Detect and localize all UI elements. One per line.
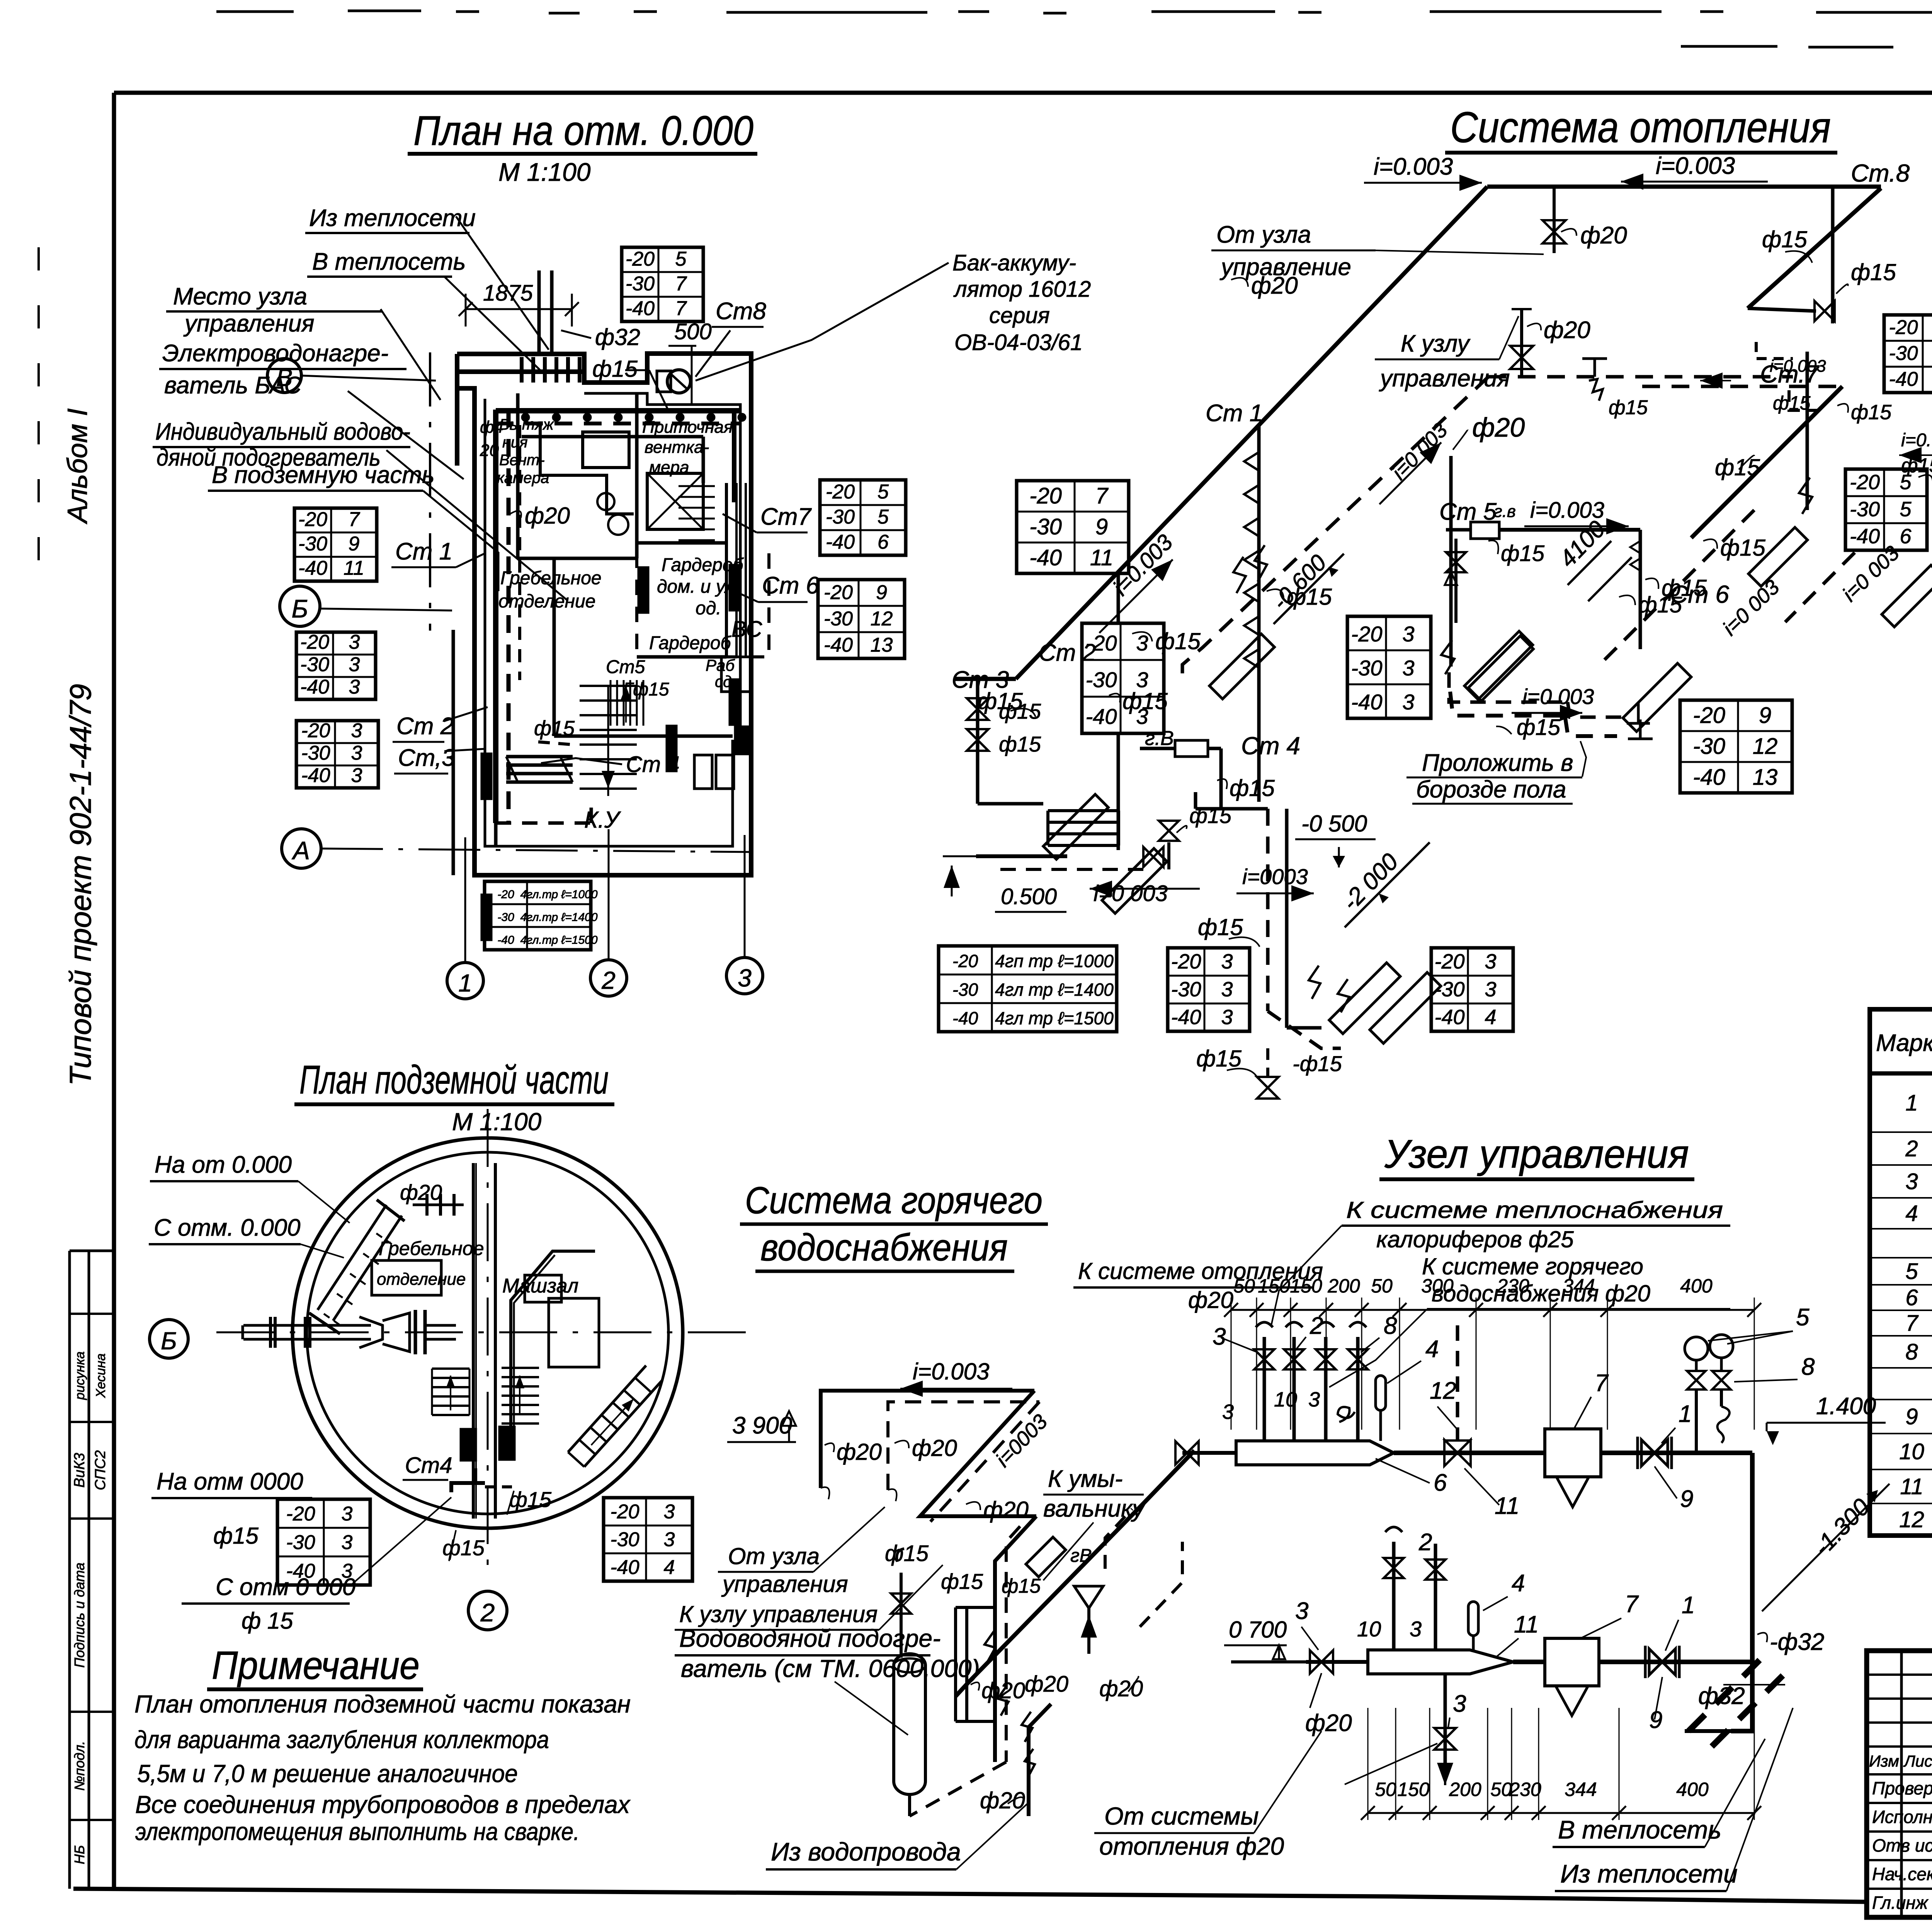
thermometer lower xyxy=(1468,1602,1478,1636)
svg-text:-20: -20 xyxy=(824,581,853,604)
svg-text:6: 6 xyxy=(1905,1285,1918,1310)
upper manifold 6 xyxy=(1236,1441,1394,1465)
svg-text:Подпись и дата: Подпись и дата xyxy=(71,1563,87,1668)
svg-text:К системе горячего: К системе горячего xyxy=(1422,1253,1643,1279)
svg-text:гВ: гВ xyxy=(1070,1546,1092,1566)
upper risers xyxy=(1263,1337,1266,1441)
flange pipe stub upper xyxy=(413,1204,464,1206)
heating lower-left level pipes xyxy=(976,854,1067,858)
svg-text:Провер.: Провер. xyxy=(1872,1778,1932,1798)
svg-text:-20: -20 xyxy=(1351,622,1383,646)
svg-text:2: 2 xyxy=(1418,1529,1432,1556)
drop elbows to radiators xyxy=(1268,1011,1341,1048)
svg-text:5: 5 xyxy=(1900,498,1912,521)
table H4 5/5/6 xyxy=(1845,469,1927,550)
svg-text:Ст4: Ст4 xyxy=(405,1453,452,1478)
table P7 4гл.тр xyxy=(485,881,591,950)
svg-text:мера: мера xyxy=(649,458,689,477)
upper dirt trap 7 xyxy=(1545,1429,1601,1477)
svg-text:Отв исп.: Отв исп. xyxy=(1872,1835,1932,1855)
svg-text:4: 4 xyxy=(1425,1336,1439,1362)
table H8 3/3/3 xyxy=(1168,948,1250,1031)
svg-text:2: 2 xyxy=(1310,1313,1323,1339)
svg-text:К узлу управления: К узлу управления xyxy=(679,1601,878,1627)
svg-text:5: 5 xyxy=(878,506,889,528)
svg-text:5: 5 xyxy=(675,248,687,270)
svg-text:Из теплосети: Из теплосети xyxy=(309,205,476,231)
svg-text:Вь.тяж: Вь.тяж xyxy=(499,416,554,433)
underground black risers xyxy=(461,1429,476,1461)
svg-text:От узла: От узла xyxy=(728,1543,820,1569)
lower dirt trap 7 xyxy=(1545,1638,1599,1686)
svg-text:50: 50 xyxy=(1371,1275,1393,1297)
lower main pipe xyxy=(1513,1660,1752,1664)
svg-text:7: 7 xyxy=(1595,1370,1609,1396)
svg-text:50: 50 xyxy=(1375,1779,1396,1800)
hot risers group mid xyxy=(954,1607,957,1721)
svg-text:лятор 16012: лятор 16012 xyxy=(953,277,1091,302)
svg-text:6: 6 xyxy=(1434,1469,1447,1496)
svg-text:Нач.сект: Нач.сект xyxy=(1872,1864,1932,1884)
svg-text:ф 15: ф 15 xyxy=(241,1608,293,1634)
svg-text:-40: -40 xyxy=(1171,1005,1201,1029)
axis bubble В xyxy=(267,359,301,393)
table U1 3/3/3 xyxy=(277,1499,370,1585)
svg-text:4: 4 xyxy=(664,1556,675,1578)
underground centerline vertical xyxy=(487,1109,489,1580)
svg-text:Система отопления: Система отопления xyxy=(1450,103,1831,151)
svg-text:В подземную часть: В подземную часть xyxy=(212,462,435,488)
svg-text:2: 2 xyxy=(601,966,616,994)
svg-text:4: 4 xyxy=(1512,1570,1525,1597)
svg-text:230: 230 xyxy=(1497,1275,1529,1297)
bottom valve xyxy=(1266,1048,1269,1078)
svg-text:электропомещения выполнить на: электропомещения выполнить на сварке. xyxy=(135,1818,580,1845)
upper manifold inlet valve xyxy=(1182,1451,1236,1455)
svg-text:В теплосеть: В теплосеть xyxy=(1558,1815,1721,1844)
svg-text:С отм. 0.000: С отм. 0.000 xyxy=(154,1214,301,1241)
svg-text:-40: -40 xyxy=(1086,704,1117,728)
svg-text:Место узла: Место узла xyxy=(173,283,307,310)
svg-text:-20: -20 xyxy=(301,719,330,742)
svg-text:М 1:100: М 1:100 xyxy=(452,1108,542,1136)
svg-text:Раб: Раб xyxy=(706,656,735,674)
svg-text:i=0.003: i=0.003 xyxy=(1656,153,1735,179)
stairs annex xyxy=(679,485,715,487)
valve marks ст5 riser xyxy=(1630,541,1640,553)
svg-text:Лист: Лист xyxy=(1903,1752,1932,1770)
plan interior walls xyxy=(516,393,520,558)
svg-text:управления: управления xyxy=(183,310,315,337)
svg-text:-40: -40 xyxy=(1850,525,1880,548)
гВ box hot xyxy=(1026,1537,1066,1577)
svg-text:8: 8 xyxy=(1801,1354,1815,1380)
svg-text:4: 4 xyxy=(1905,1201,1918,1226)
svg-text:-40: -40 xyxy=(301,764,330,787)
svg-text:150: 150 xyxy=(1258,1275,1290,1297)
svg-text:-30: -30 xyxy=(610,1528,639,1551)
spec table frame xyxy=(1870,1009,1932,1536)
underground stairs right xyxy=(502,1367,539,1369)
svg-text:3: 3 xyxy=(351,764,362,787)
svg-text:0 700: 0 700 xyxy=(1229,1617,1287,1643)
svg-text:-30: -30 xyxy=(1434,978,1464,1001)
radiator Ст2 xyxy=(1102,849,1167,913)
гв box ст4 xyxy=(1175,740,1208,757)
svg-text:5: 5 xyxy=(1796,1304,1810,1331)
svg-text:-30: -30 xyxy=(497,911,514,924)
dashed return mid drop xyxy=(910,1762,1006,1816)
svg-text:-40: -40 xyxy=(626,297,655,320)
radiator bars Ст2-Ст3 xyxy=(506,755,573,759)
svg-text:3: 3 xyxy=(1905,1169,1918,1194)
svg-text:Ст 3: Ст 3 xyxy=(952,667,1009,693)
svg-text:7: 7 xyxy=(1905,1311,1919,1336)
svg-text:-ф32: -ф32 xyxy=(1770,1629,1824,1655)
table P4 7/9/11 xyxy=(294,508,377,581)
svg-text:водоснабжения ф20: водоснабжения ф20 xyxy=(1432,1281,1650,1306)
plan dashed loop гардероб xyxy=(637,553,769,657)
svg-text:С отм 0 000: С отм 0 000 xyxy=(216,1574,355,1600)
axis bubble 2 xyxy=(590,960,627,996)
svg-text:ф20: ф20 xyxy=(1025,1672,1068,1697)
svg-text:3: 3 xyxy=(1222,1400,1234,1423)
svg-text:-30: -30 xyxy=(1171,978,1201,1001)
svg-text:1: 1 xyxy=(1679,1401,1692,1427)
svg-text:-30: -30 xyxy=(300,653,329,676)
svg-text:-30: -30 xyxy=(824,607,853,630)
svg-text:3: 3 xyxy=(1402,622,1414,646)
svg-text:-40: -40 xyxy=(610,1556,639,1578)
svg-text:Гребельное: Гребельное xyxy=(379,1238,484,1259)
svg-text:0.500: 0.500 xyxy=(1001,884,1057,909)
svg-text:3: 3 xyxy=(1221,1005,1233,1029)
plan pipe branch вентка xyxy=(540,423,634,514)
svg-text:ф15: ф15 xyxy=(1196,1046,1242,1071)
curl symbol upper xyxy=(1338,1407,1355,1422)
svg-text:-40: -40 xyxy=(826,531,855,553)
lower dim line xyxy=(1368,1812,1754,1814)
svg-text:ф32: ф32 xyxy=(1698,1683,1745,1709)
title block left rows xyxy=(1867,1673,1932,1676)
svg-text:ф15: ф15 xyxy=(534,717,575,740)
svg-text:План отопления подземной части: План отопления подземной части показан xyxy=(134,1690,631,1718)
svg-text:Ст8: Ст8 xyxy=(716,298,766,325)
vertical ст7 drop xyxy=(1806,352,1809,510)
svg-text:3: 3 xyxy=(1410,1617,1422,1641)
svg-text:№подл.: №подл. xyxy=(71,1741,87,1791)
anchor floor duct xyxy=(1639,719,1642,739)
svg-text:20: 20 xyxy=(480,441,499,460)
svg-text:ф20: ф20 xyxy=(837,1439,882,1465)
svg-text:Машзал: Машзал xyxy=(502,1275,578,1297)
svg-text:ф15: ф15 xyxy=(1851,259,1896,285)
svg-text:Ст,3: Ст,3 xyxy=(398,745,455,771)
svg-text:калориферов ф25: калориферов ф25 xyxy=(1376,1226,1574,1252)
plan lower pipe marks xyxy=(494,823,498,845)
svg-text:-20: -20 xyxy=(298,509,327,531)
svg-text:План подземной части: План подземной части xyxy=(299,1058,609,1102)
svg-text:-0 500: -0 500 xyxy=(1301,811,1367,837)
svg-text:СПС2: СПС2 xyxy=(92,1450,109,1490)
svg-text:од.: од. xyxy=(696,598,721,619)
svg-text:Приточная: Приточная xyxy=(642,418,733,437)
lower risers xyxy=(1392,1542,1396,1650)
теплосеть dashed diagonals xyxy=(1689,1658,1762,1731)
svg-text:В теплосеть: В теплосеть xyxy=(312,248,466,275)
valve stub от узла on top main xyxy=(1553,187,1556,253)
pressure gauges 5 xyxy=(1685,1337,1708,1360)
svg-text:-30: -30 xyxy=(301,742,330,764)
svg-text:9: 9 xyxy=(1680,1486,1693,1512)
svg-text:-20: -20 xyxy=(286,1503,315,1525)
svg-text:i=0.003: i=0.003 xyxy=(1374,153,1453,180)
plan pipe bottom branch xyxy=(496,821,591,825)
svg-text:-20: -20 xyxy=(1171,950,1201,973)
svg-text:-20: -20 xyxy=(300,631,329,653)
svg-text:-40: -40 xyxy=(952,1008,978,1028)
table P2 5/5/6 xyxy=(820,480,906,555)
svg-text:НБ: НБ xyxy=(71,1845,87,1864)
valve squiggle on return xyxy=(1589,379,1603,401)
underground pipes Ст4 xyxy=(451,1483,485,1492)
svg-text:отделение: отделение xyxy=(377,1270,466,1289)
return drop to floor duct xyxy=(1449,456,1453,667)
radiator Ст3 xyxy=(1043,794,1108,859)
table P3 9/12/13 xyxy=(818,580,905,658)
vent chamber X symbol xyxy=(647,473,703,529)
svg-text:На отм 0000: На отм 0000 xyxy=(156,1468,303,1495)
svg-text:Ст 4: Ст 4 xyxy=(1241,732,1300,760)
svg-text:Вент-: Вент- xyxy=(499,452,545,469)
svg-text:2: 2 xyxy=(480,1598,495,1627)
radiator right xyxy=(1623,663,1691,732)
svg-text:-40: -40 xyxy=(1889,368,1918,391)
svg-text:3: 3 xyxy=(1295,1598,1308,1624)
funnel symbol hot xyxy=(1074,1586,1103,1608)
svg-text:7: 7 xyxy=(349,509,361,531)
svg-text:ф15: ф15 xyxy=(1638,592,1682,617)
vent unit rect xyxy=(583,432,629,468)
svg-text:3: 3 xyxy=(738,964,752,992)
svg-text:-40: -40 xyxy=(824,634,853,656)
table P5 3/3/3 xyxy=(296,632,376,699)
svg-text:управления: управления xyxy=(721,1571,848,1597)
Ст6-Ст7 supply diagonal xyxy=(1691,386,1842,538)
svg-text:К умы-: К умы- xyxy=(1048,1466,1123,1492)
plan right annex xyxy=(725,483,728,657)
svg-text:ф20: ф20 xyxy=(1305,1710,1352,1736)
svg-text:7: 7 xyxy=(675,297,687,320)
svg-text:4гл.тр ℓ=1000: 4гл.тр ℓ=1000 xyxy=(520,888,597,901)
hot diagonal second xyxy=(995,1516,1036,1762)
svg-text:Система горячего: Система горячего xyxy=(745,1179,1043,1221)
axis bubble Б under xyxy=(150,1320,188,1358)
right side stub horizontal xyxy=(1748,308,1816,311)
svg-text:Ст 2: Ст 2 xyxy=(396,713,454,740)
plan axis dash line xyxy=(429,352,431,631)
right side Ст8 riser diagonal xyxy=(1748,188,1881,308)
squiggle breaks hot xyxy=(821,1487,830,1499)
svg-text:-40: -40 xyxy=(300,676,329,698)
svg-text:Гардероб: Гардероб xyxy=(649,633,732,653)
svg-text:ВиК3: ВиК3 xyxy=(71,1453,88,1488)
svg-text:3: 3 xyxy=(349,653,360,676)
svg-text:Б: Б xyxy=(292,594,308,623)
svg-text:i=0 003: i=0 003 xyxy=(1522,684,1594,709)
svg-text:М 1:100: М 1:100 xyxy=(498,158,591,186)
svg-text:10: 10 xyxy=(1274,1388,1297,1411)
svg-text:4гп тр ℓ=1000: 4гп тр ℓ=1000 xyxy=(995,951,1114,971)
svg-text:К системе теплоснабжения: К системе теплоснабжения xyxy=(1346,1197,1723,1223)
svg-text:3: 3 xyxy=(342,1503,353,1525)
svg-text:3: 3 xyxy=(1213,1323,1226,1350)
axis bubble А xyxy=(282,829,321,868)
svg-text:3: 3 xyxy=(342,1531,353,1554)
svg-text:-30: -30 xyxy=(626,272,655,295)
svg-text:-30: -30 xyxy=(1889,342,1918,365)
double drop pipes mid xyxy=(1266,809,1270,1011)
svg-text:Исполнит.: Исполнит. xyxy=(1872,1807,1932,1827)
svg-text:150: 150 xyxy=(1397,1779,1430,1800)
svg-text:Узел управления: Узел управления xyxy=(1384,1132,1689,1177)
table H3 3/3/3 xyxy=(1347,616,1431,718)
svg-text:ф15: ф15 xyxy=(941,1569,983,1594)
svg-text:4гл тр ℓ=1500: 4гл тр ℓ=1500 xyxy=(995,1008,1114,1028)
svg-text:дом. и ул.: дом. и ул. xyxy=(657,577,741,597)
pipe reducer funnel xyxy=(359,1317,383,1348)
svg-text:г.в: г.в xyxy=(1494,502,1516,521)
svg-text:На от 0.000: На от 0.000 xyxy=(155,1151,292,1178)
svg-text:8: 8 xyxy=(1905,1340,1918,1365)
underground outer circle xyxy=(293,1138,683,1528)
svg-text:9: 9 xyxy=(1759,703,1771,728)
svg-text:4гл.тр ℓ=1400: 4гл.тр ℓ=1400 xyxy=(520,911,597,924)
svg-text:300: 300 xyxy=(1421,1275,1454,1297)
svg-text:-30: -30 xyxy=(952,980,978,1000)
svg-text:13: 13 xyxy=(1753,765,1778,790)
ladder radiator block xyxy=(1048,809,1119,812)
underground centerline horizontal xyxy=(216,1332,757,1333)
N-valves near ст1 radiator xyxy=(1233,557,1246,593)
svg-text:водоснабжения: водоснабжения xyxy=(760,1226,1008,1269)
svg-text:8: 8 xyxy=(1384,1313,1397,1339)
left stamp strip columns xyxy=(68,1251,71,1889)
sheet frame xyxy=(114,91,1932,95)
svg-text:От системы: От системы xyxy=(1104,1802,1259,1830)
svg-text:1.400: 1.400 xyxy=(1816,1393,1876,1420)
title block left columns xyxy=(1900,1651,1903,1917)
svg-text:11: 11 xyxy=(1090,545,1113,570)
right vertical pipe xyxy=(1750,1453,1755,1662)
svg-text:Все соединения трубопроводов: Все соединения трубопроводов в пределах xyxy=(135,1791,631,1818)
svg-text:ф20: ф20 xyxy=(1580,222,1627,249)
svg-text:230: 230 xyxy=(1509,1779,1541,1800)
svg-text:12: 12 xyxy=(1899,1507,1924,1532)
svg-text:камера: камера xyxy=(497,469,549,486)
svg-text:Типовой проект 902-1-44/79: Типовой проект 902-1-44/79 xyxy=(63,684,97,1086)
svg-text:Б: Б xyxy=(161,1327,177,1355)
anchor symbol on return xyxy=(1594,359,1596,377)
svg-text:1: 1 xyxy=(458,969,472,997)
svg-text:4гл.тр ℓ=1500: 4гл.тр ℓ=1500 xyxy=(520,934,597,947)
svg-text:200: 200 xyxy=(1327,1275,1360,1297)
svg-text:ф20: ф20 xyxy=(1251,272,1298,299)
riser Ст1 xyxy=(1257,425,1261,802)
svg-text:9: 9 xyxy=(349,533,360,555)
dashed return mid loop xyxy=(1488,375,1793,379)
table P1 5/7/7 xyxy=(622,247,703,321)
floor duct dashed pipe xyxy=(1450,692,1565,716)
svg-text:ф15: ф15 xyxy=(1851,401,1892,424)
svg-text:Из водопровода: Из водопровода xyxy=(771,1837,961,1866)
ст7 dashed box xyxy=(1789,390,1824,410)
supply main top horizontal xyxy=(1487,185,1881,189)
svg-text:3: 3 xyxy=(349,631,360,653)
svg-text:ф15: ф15 xyxy=(1715,454,1760,480)
svg-text:ф15: ф15 xyxy=(1762,226,1807,252)
vent hatch ticks xyxy=(520,357,524,383)
svg-text:3: 3 xyxy=(1485,978,1496,1001)
svg-text:отделение: отделение xyxy=(498,591,595,612)
svg-text:отопления ф20: отопления ф20 xyxy=(1099,1832,1284,1860)
radiator ст1 bottom xyxy=(1209,634,1274,699)
room box отделение xyxy=(372,1260,441,1295)
svg-text:Из теплосети: Из теплосети xyxy=(1560,1859,1738,1888)
svg-text:3: 3 xyxy=(1485,950,1496,973)
leader lines under xyxy=(350,1497,451,1586)
anchor ст5 return xyxy=(1637,702,1640,723)
radiator ст5-right xyxy=(1468,636,1533,701)
title block frame xyxy=(1867,1651,1932,1917)
svg-text:ф20: ф20 xyxy=(1472,412,1525,442)
svg-text:План на отм. 0.000: План на отм. 0.000 xyxy=(413,107,753,154)
svg-text:ф15: ф15 xyxy=(442,1536,485,1560)
hot supply top run xyxy=(821,1391,1034,1488)
svg-text:11: 11 xyxy=(1514,1611,1539,1638)
valves on mid verticals xyxy=(985,1631,995,1662)
svg-text:ф20: ф20 xyxy=(525,503,570,529)
svg-text:6: 6 xyxy=(878,531,889,553)
svg-text:Ст.8: Ст.8 xyxy=(1851,159,1910,187)
svg-text:рисунка: рисунка xyxy=(73,1351,87,1400)
lower drop valve 3 xyxy=(1444,1674,1447,1777)
svg-text:-30: -30 xyxy=(1850,498,1880,521)
svg-text:-20: -20 xyxy=(1693,703,1725,728)
svg-text:ф15: ф15 xyxy=(885,1541,929,1566)
table H1 7/9/11 xyxy=(1017,481,1129,573)
svg-text:-30: -30 xyxy=(1351,656,1383,680)
svg-text:i=0.003: i=0.003 xyxy=(913,1359,990,1384)
svg-text:5: 5 xyxy=(878,481,889,503)
table H6 5/7/7 xyxy=(1884,315,1932,393)
svg-text:Ст5: Ст5 xyxy=(606,657,645,677)
svg-text:50: 50 xyxy=(1233,1275,1255,1297)
underground center walls xyxy=(472,1163,475,1519)
теплосеть corner xyxy=(1731,1662,1752,1731)
table H5 9/12/13 xyxy=(1680,700,1792,793)
svg-text:4: 4 xyxy=(1485,1005,1496,1029)
svg-text:А: А xyxy=(291,836,310,865)
dashed loop right xyxy=(1105,1509,1132,1569)
svg-text:-40: -40 xyxy=(1693,765,1725,790)
svg-text:Гребельное: Гребельное xyxy=(500,568,602,588)
svg-text:Альбом I: Альбом I xyxy=(62,408,93,524)
pipe flange pair right xyxy=(414,1310,417,1354)
svg-text:i=0003: i=0003 xyxy=(1242,864,1308,889)
underground right rooms xyxy=(511,1251,595,1461)
svg-text:3: 3 xyxy=(351,742,362,764)
